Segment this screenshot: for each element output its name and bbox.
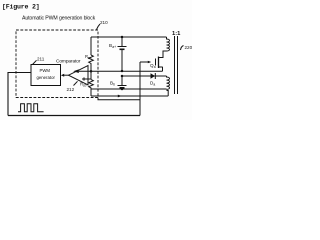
svg-text:a+: a+ [112, 45, 116, 49]
svg-text:Automatic PWM generation block: Automatic PWM generation block [22, 15, 96, 21]
svg-text:a: a [153, 83, 155, 87]
svg-text:PWM: PWM [40, 68, 51, 73]
svg-text:220: 220 [185, 45, 193, 50]
svg-text:1:1: 1:1 [172, 31, 181, 37]
svg-text:sa: sa [88, 56, 92, 60]
svg-text:212: 212 [67, 87, 75, 92]
svg-text:[Figure 2]: [Figure 2] [2, 4, 40, 11]
svg-text:sb: sb [83, 83, 87, 87]
svg-text:b: b [113, 83, 115, 87]
svg-text:generator: generator [37, 75, 56, 80]
svg-text:a: a [154, 65, 156, 69]
svg-text:210: 210 [100, 20, 108, 25]
svg-text:Comparator: Comparator [56, 59, 81, 65]
svg-text:211: 211 [37, 57, 45, 62]
